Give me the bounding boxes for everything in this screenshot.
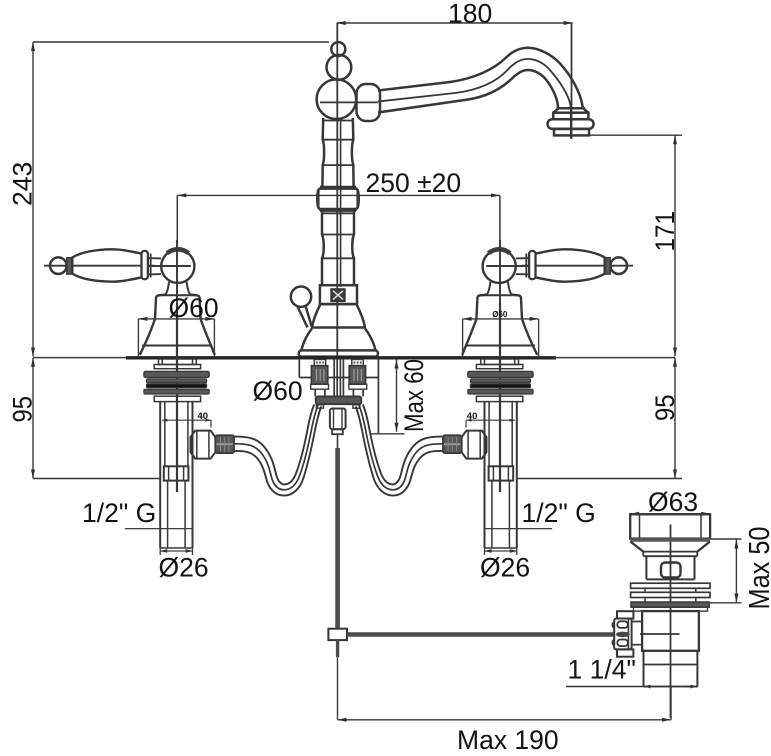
svg-text:95: 95: [8, 396, 38, 423]
pop-up rod upper: [337, 434, 339, 450]
rod ball end: [616, 632, 630, 638]
mounting bracket bar: [316, 396, 362, 404]
mounting deck line thin right: [554, 357, 675, 359]
ball vertical centerline: [176, 240, 178, 303]
knurl slots: [617, 621, 628, 628]
mounting deck line thick: [126, 356, 556, 359]
spout horn: [357, 84, 381, 121]
drain top flange: [630, 514, 710, 538]
dimension 180 right extension to spout outlet: [571, 23, 573, 139]
right stud stem: [353, 389, 363, 396]
right mounting stud nut: [349, 366, 365, 385]
spout outlet lower band: [554, 129, 589, 136]
right mounting stud cap: [352, 360, 364, 366]
dimension 1 1/4 leader line: [566, 686, 698, 688]
left stud collar: [311, 384, 329, 389]
lever body: [72, 249, 142, 281]
drain lower body: [642, 611, 699, 651]
Ø60 dimension line: [138, 318, 214, 320]
svg-text:1/2" G: 1/2" G: [522, 498, 596, 528]
right stud collar: [349, 384, 367, 389]
svg-text:40: 40: [467, 411, 478, 422]
neck below ball: [166, 282, 191, 295]
knurl bumps: [612, 622, 614, 646]
dimension Max190 right extension: [670, 687, 672, 720]
svg-text:Ø63: Ø63: [648, 487, 698, 517]
dimension 95 right bottom extension: [516, 478, 682, 480]
dimension 243 line: [32, 42, 34, 357]
Ø26 dimension line: [160, 550, 192, 552]
rod axis line into body: [640, 633, 680, 635]
locknut bar 5: [144, 389, 209, 394]
handle tip ball: [50, 257, 67, 274]
column dark ring lower: [320, 208, 356, 212]
column segment divider lines: [323, 120, 353, 122]
dimension Max60 line: [396, 360, 398, 432]
1/2 G leader line: [125, 528, 193, 530]
knurled nut body: [614, 619, 631, 650]
under-deck outline box: [299, 359, 378, 434]
cartridge square with X: [331, 289, 344, 301]
dimension Max50 top extension: [711, 538, 742, 540]
knurled adjusting nut top tab: [617, 611, 633, 618]
ball top cap: [167, 249, 189, 253]
drain centerline: [670, 525, 672, 719]
cone lower divider: [142, 345, 211, 347]
pop-up rod guide lines: [334, 359, 343, 396]
spout ball joint: [317, 79, 357, 119]
side port hex nut: [191, 431, 216, 459]
overflow window: [661, 563, 681, 578]
svg-text:250 ±20: 250 ±20: [366, 168, 462, 198]
spout outlet torus: [548, 119, 594, 129]
dimension 1 1/4 arrows: [644, 686, 656, 688]
spout outlet centerline: [570, 108, 572, 138]
ball horizontal centerline: [149, 265, 191, 267]
dimension Max50 line: [735, 540, 737, 603]
supply pipe outer walls: [160, 402, 192, 548]
Ø26 extension lines: [160, 548, 192, 555]
flange underside dark band: [630, 538, 710, 541]
bracket end tab left: [316, 405, 323, 408]
spout tube top contour: [378, 48, 583, 109]
right valve (mirror of left): [356, 240, 633, 555]
tailpiece divider: [644, 664, 698, 666]
left stud stem: [315, 389, 325, 396]
dimension Max60 bottom extension: [370, 433, 405, 435]
flange taper: [631, 542, 710, 552]
column inner highlight line: [340, 118, 342, 287]
pop-up lift knob: [291, 287, 311, 307]
drain tailpiece upper: [644, 651, 698, 687]
handle tip collar: [67, 258, 73, 274]
ball joint horizontal centerline: [320, 101, 378, 103]
svg-text:Max 50: Max 50: [744, 527, 771, 610]
handle tip stub line: [44, 265, 70, 267]
flexible hose outer: [234, 404, 314, 484]
base cone: [140, 319, 215, 355]
body skirt: [301, 329, 375, 351]
svg-text:Ø26: Ø26: [480, 553, 530, 583]
svg-text:Ø26: Ø26: [159, 553, 209, 583]
svg-text:Ø60: Ø60: [253, 376, 303, 406]
washer bar 1: [154, 365, 200, 369]
base flange: [299, 350, 378, 356]
Ø60 frame left vertical: [137, 319, 139, 357]
nut right rim line: [627, 619, 629, 650]
horizontal pop-up linkage rod: [347, 632, 616, 636]
bracket end tab right: [353, 405, 360, 408]
svg-text:171: 171: [650, 211, 680, 252]
thread washer bar: [634, 607, 708, 611]
finial mid ball: [327, 55, 352, 80]
hose coupling nut: [215, 435, 234, 453]
svg-text:243: 243: [8, 162, 38, 206]
knurled nut bottom tab: [617, 649, 633, 656]
base dome: [155, 295, 201, 319]
dimension 95 left bottom extension: [33, 478, 160, 480]
lever collar second band: [150, 254, 152, 278]
finial small ball: [331, 42, 345, 56]
column bead bulge: [317, 190, 359, 208]
thread ring 3 dark: [631, 602, 709, 607]
supply pipe inner walls: [165, 402, 188, 467]
pop-up rod: [335, 448, 340, 629]
mounting deck line thin left: [33, 357, 128, 359]
spout outlet flare: [553, 108, 588, 112]
left mounting stud cap: [314, 360, 326, 366]
svg-text:1/2" G: 1/2" G: [82, 498, 156, 528]
svg-text:Ø60: Ø60: [169, 293, 219, 323]
drain upper body: [646, 556, 694, 579]
pipe lower inner walls: [168, 481, 186, 548]
shank top section: [159, 359, 197, 365]
valve square head: [164, 466, 189, 480]
lever centerline: [72, 265, 155, 267]
svg-text:40: 40: [198, 411, 209, 422]
dimension 171 top extension from spout outlet: [589, 134, 682, 136]
bonnet collar: [320, 285, 357, 304]
lever collar pill: [142, 251, 148, 279]
left mounting stud nut: [311, 366, 327, 385]
dimension 180 line: [337, 22, 573, 24]
thread side connectors: [645, 588, 696, 602]
column right contour: [352, 118, 358, 285]
dimension 171 line: [674, 135, 676, 356]
knurled nut connector lines: [632, 622, 643, 645]
center block bottom nut: [332, 429, 343, 434]
thread ring 1: [631, 583, 710, 588]
dimension Max190 left extension: [337, 652, 339, 720]
dimension 243 top extension line: [33, 41, 329, 43]
column centerline: [336, 23, 338, 356]
locknut bar 4 dark: [147, 384, 207, 388]
dimension 250 right extension: [499, 195, 501, 249]
svg-text:180: 180: [448, 0, 492, 29]
dimension 40 line: [162, 419, 211, 421]
svg-text:Max 60: Max 60: [399, 359, 429, 432]
svg-text:Ø60: Ø60: [492, 310, 508, 319]
column dark ring upper: [320, 186, 356, 190]
center block: [330, 409, 346, 430]
svg-text:95: 95: [650, 395, 680, 422]
handle ball joint: [161, 250, 194, 283]
dimension Ø63 line: [630, 513, 710, 515]
dimension 250 left extension: [176, 195, 178, 249]
flexible hose inner: [234, 406, 321, 495]
locknut bar 2: [144, 371, 209, 377]
dimension 95 left line: [32, 358, 34, 479]
Ø60 frame right vertical: [213, 319, 215, 357]
spout tube middle contour: [378, 59, 571, 108]
pop-up rod clamp: [328, 629, 347, 640]
dimension 250 +-20 line: [177, 194, 500, 196]
tailpiece bottom edge: [644, 686, 698, 688]
pop-up rod tail: [336, 640, 339, 657]
flexible hose middle: [234, 405, 318, 489]
dimension 40 drop: [210, 420, 212, 427]
lift knob arm: [298, 306, 312, 328]
thread ring 2: [631, 592, 710, 597]
locknut bar 3: [147, 379, 207, 383]
dimension Max190 line: [338, 719, 672, 721]
dimension Max50 bottom extension: [710, 602, 742, 604]
spout outlet upper band: [553, 113, 588, 120]
washer bar 6: [154, 396, 200, 401]
svg-text:1 1/4": 1 1/4": [568, 655, 636, 685]
dome top edge: [159, 294, 197, 296]
drain body neck: [643, 552, 697, 557]
svg-text:Max 190: Max 190: [457, 725, 559, 755]
column left contour: [318, 118, 324, 285]
bell divider line: [311, 326, 366, 329]
valve centerline below deck: [176, 303, 178, 492]
body bell: [312, 304, 365, 327]
spout tube bottom contour: [378, 70, 558, 113]
pipe bottom edge: [160, 547, 192, 549]
neck to ball: [148, 258, 161, 274]
dimension 95 right line: [674, 358, 676, 479]
